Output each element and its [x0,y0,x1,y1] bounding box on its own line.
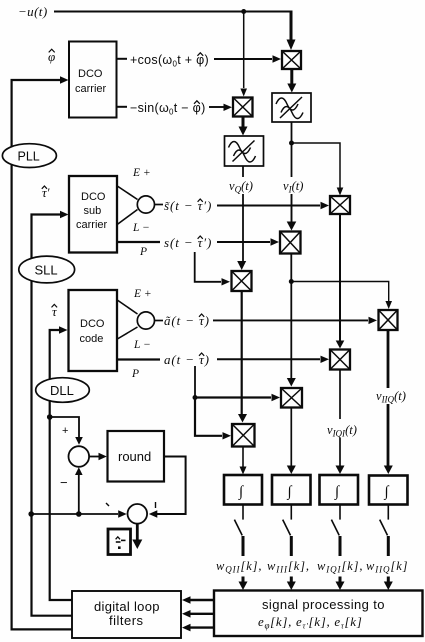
svg-text:s̃(t − τ′): s̃(t − τ′) [164,198,212,213]
switch S2 sampler below integrator 2 [283,505,292,557]
svg-text:∫: ∫ [238,484,245,500]
wire: u(t) down into mixer M1 [287,11,296,51]
node: junction SLL rail tap for adder A2 [28,511,34,517]
wire: E and L stubs into subcarrier selector [117,186,138,226]
wire: vII branch right and down into mixer M6 [291,282,392,310]
svg-text:wIQI[k],: wIQI[k], [317,559,363,575]
svg-text:signal processing to: signal processing to [262,597,385,612]
wire: vQ column down into mixer M5 [237,194,246,270]
filter F2 lowpass [225,136,264,166]
svg-text:DLL: DLL [50,383,74,398]
multiplier M5 (vQ x s) [232,271,252,291]
adder A2 summing circle [128,504,148,524]
wire: PLL feedback rail to DCO carrier [12,76,72,629]
wire: M7 output down to integrator 2 [287,408,296,475]
node SLL loop ellipse [19,256,75,283]
filter F1 lowpass [272,93,311,122]
node DLL loop ellipse [36,378,90,403]
svg-text:sub: sub [84,205,102,217]
wire: a branch down and right into mixer M8 [195,398,231,440]
svg-text:eφ[k], eτ′[k], eτ[k]: eφ[k], eτ′[k], eτ[k] [258,614,362,631]
wire: a branch down to junction [194,366,196,398]
box: digital loop filters [72,591,181,638]
wire: E and L stubs into code selector [117,300,138,340]
svg-text:∫: ∫ [334,484,341,500]
node: junction on vI for branch to M3 [289,141,294,146]
box: DCO code U3 [69,290,118,371]
svg-text:wIII[k],: wIII[k], [267,559,310,575]
svg-text:−u(t): −u(t) [18,4,48,19]
svg-text:E +: E + [133,288,152,300]
wire: P output s(t - tau') from sub carrier DCO [117,235,279,250]
svg-text:∫: ∫ [287,484,294,500]
box: signal processing [214,591,423,637]
wire: SLL tap across to adder A2 left input [31,510,127,517]
svg-text:P: P [139,246,147,258]
svg-text:PLL: PLL [18,150,40,164]
multiplier M2 (u x -sin) [233,98,253,117]
wire: M2 output into filter F2 [239,117,248,136]
wire: F2 output vQ(t) column segment [242,166,244,177]
wire: M8 output down to integrator 1 [240,447,247,475]
svg-text:carrier: carrier [76,219,108,231]
svg-text:filters: filters [109,613,144,628]
wire: F1 output vI(t) column segment [291,122,293,177]
integrator I1 [224,475,262,505]
box: round [108,431,165,482]
hat accents drawn over greek letters [42,49,204,356]
wire: up into minus input of adder A1 [75,467,83,514]
wire: +cos output of DCO carrier [117,53,282,69]
svg-text:L −: L − [133,339,151,351]
wire: s branch down and into mixer M5 [195,252,230,286]
svg-text:vIQI(t): vIQI(t) [327,423,357,439]
wire: error arrow 2 signal processing to loop filters [182,610,214,618]
wire: M4 output down to junction [290,254,292,282]
node: junction of u(t) branch to Q mixer [241,9,246,14]
node PLL loop ellipse [2,144,56,168]
wire: a~ line across into mixer M6 [213,317,377,324]
wire: vI branch right and down into mixer M3 [292,143,344,196]
svg-text:wQII[k],: wQII[k], [216,559,262,575]
svg-text:digital loop: digital loop [94,599,160,614]
node: subcarrier E-L selector circle [137,196,163,213]
wire: w1 arrow into signal processing [239,577,248,591]
node: code E-L selector circle [137,312,163,329]
wire: error arrow 3 signal processing to loop filters [182,624,214,632]
wire: a branch right into mixer M7 [195,394,280,401]
wire: M6 output column with vIIQ(t) label [376,330,406,474]
adder A1 summing circle [69,446,90,467]
svg-text:+: + [62,425,68,437]
wire: u(t) branch down into mixer M2 [240,12,247,97]
wire: s~ line into mixer M3 [217,202,329,209]
multiplier M7 (vII x a) [281,388,302,408]
multiplier M8 (vQI x a) [232,424,255,447]
wire: adder A1 output into round [89,453,107,460]
wire: DLL tap to plus input of adder A1 [50,417,83,445]
svg-text:vQ(t): vQ(t) [229,179,253,195]
multiplier M1 (u x cos) [282,51,301,69]
wire: Mc3 output column with vIQI(t) label [327,370,357,475]
wire: SLL feedback rail to DCO sub carrier [32,211,73,616]
svg-text:s(t − τ′): s(t − τ′) [164,235,212,250]
svg-text:DCO: DCO [80,318,105,330]
multiplier M3 (vI x s~) [330,196,350,214]
wire: w3 arrow into signal processing [336,577,345,591]
switch S3 sampler below integrator 3 [331,505,340,557]
wire: vII column down into mixer M7 [287,282,296,387]
svg-text:code: code [80,333,104,345]
svg-text:round: round [118,449,151,464]
wire: M5 output column down into mixer M8 [238,291,247,423]
svg-text:vI(t): vI(t) [283,179,303,195]
svg-text:DCO: DCO [81,191,106,203]
node: junction on vII column for branch to M6 [289,279,294,284]
label tick minus at adder A2 right [155,502,157,508]
svg-text:E +: E + [132,167,151,179]
svg-text:vIIQ(t): vIIQ(t) [376,389,406,405]
wire: M1 output into filter F1 [287,69,296,93]
svg-text:carrier: carrier [75,83,107,95]
wire: w2 arrow into signal processing [287,577,296,591]
multiplier M6 (vII x a~) [379,310,398,330]
integrator I2 [272,475,311,505]
box: delta quantity indicator [108,529,131,555]
integrator I3 [320,475,359,505]
label tick plus at adder A2 left [106,503,109,506]
switch S1 sampler below integrator 1 [234,505,243,557]
multiplier M4 (vI x s) [280,232,301,254]
svg-text:L −: L − [132,222,150,234]
switch S4 sampler below integrator 4 [380,505,389,557]
multiplier Mc3 (vIQ x a) [330,350,350,370]
node: junction DLL rail to adder A1 [47,414,53,420]
svg-text:DCO: DCO [78,68,103,80]
wire: error arrow 1 signal processing to loop filters [182,596,214,604]
node: junction on a branch [193,395,198,400]
wire: -sin output of DCO carrier [117,101,233,117]
box: DCO carrier U1 [69,42,117,118]
wire: vI column down into mixer M4 [287,194,297,231]
svg-text:wIIQ[k]: wIIQ[k] [366,559,408,575]
svg-text:P: P [131,368,139,380]
wire: adder A2 output arrow down [132,524,142,549]
wire: M3 output column down into mixer Mc3 [336,214,345,349]
wire: round output down to adder A2 right input [149,457,186,518]
wire: DLL feedback rail to DCO code [50,326,72,600]
node: junction for minus input of adder A1 [76,511,82,517]
svg-text:SLL: SLL [35,263,58,278]
svg-text:−: − [60,475,68,490]
integrator I4 [369,476,408,505]
svg-text:∫: ∫ [384,484,391,500]
wire: -u(t) input line across top [18,4,291,19]
wire: w4 arrow into signal processing [384,577,393,591]
box: DCO sub carrier U2 [69,176,117,253]
wire: P output a(t - tau) from code DCO [117,352,329,367]
